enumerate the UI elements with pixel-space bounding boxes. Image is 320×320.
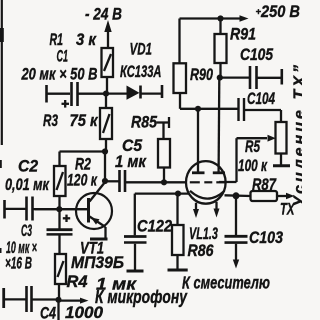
svg-text:С4: С4 — [40, 304, 57, 320]
svg-text:МП39Б: МП39Б — [71, 253, 124, 272]
svg-text:75 к: 75 к — [70, 112, 99, 130]
svg-text:Усиление ТХ”: Усиление ТХ” — [292, 65, 303, 207]
svg-text:C104: C104 — [247, 90, 275, 109]
svg-text:1 мк: 1 мк — [115, 153, 147, 171]
svg-text:C3: C3 — [21, 221, 32, 240]
svg-text:R4: R4 — [67, 272, 89, 291]
svg-text:R87: R87 — [252, 175, 277, 194]
svg-text:R5: R5 — [245, 138, 261, 157]
svg-text:0,01 мк: 0,01 мк — [5, 175, 50, 194]
svg-text:КС133А: КС133А — [120, 63, 161, 82]
svg-text:VD1: VD1 — [130, 40, 152, 59]
svg-text:R85: R85 — [131, 113, 157, 131]
svg-text:VL1.3: VL1.3 — [189, 225, 218, 244]
svg-text:20 мк × 50 В: 20 мк × 50 В — [21, 65, 98, 84]
svg-text:1000: 1000 — [65, 303, 104, 320]
svg-text:100 к: 100 к — [238, 157, 267, 176]
svg-text:×16 В: ×16 В — [5, 253, 32, 272]
svg-text:К смесителю: К смесителю — [182, 274, 270, 294]
svg-text:К микрофону: К микрофону — [95, 287, 188, 307]
svg-text:C105: C105 — [240, 46, 273, 65]
svg-text:C2: C2 — [18, 157, 38, 176]
svg-text:R91: R91 — [230, 25, 256, 43]
svg-text:3 к: 3 к — [76, 31, 97, 49]
svg-text:- 24 В: - 24 В — [85, 5, 122, 24]
svg-text:C1: C1 — [57, 47, 69, 66]
svg-text:R3: R3 — [43, 112, 58, 131]
svg-text:C103: C103 — [249, 229, 283, 247]
svg-text:C122: C122 — [137, 218, 172, 236]
svg-text:R90: R90 — [190, 65, 214, 84]
svg-text:250 В: 250 В — [260, 3, 300, 21]
svg-text:120 к: 120 к — [67, 172, 98, 190]
svg-text:+: + — [256, 7, 262, 18]
svg-text:R86: R86 — [188, 242, 214, 260]
